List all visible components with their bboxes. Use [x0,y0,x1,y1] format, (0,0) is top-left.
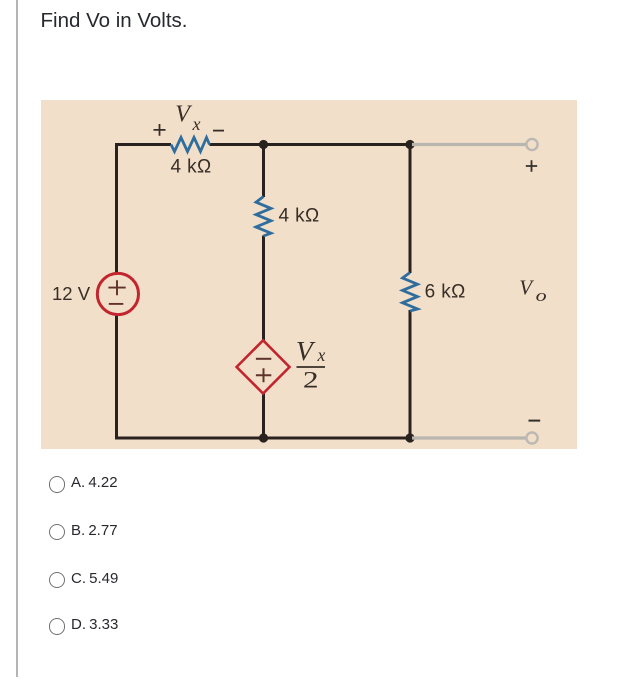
node: top right junction [405,140,414,149]
figure background panel [41,100,577,449]
svg-text:V: V [175,102,192,128]
svg-text:4 kΩ: 4 kΩ [279,205,320,226]
svg-text:12 V: 12 V [52,283,91,304]
label: minus polarity of Vo [529,420,541,422]
answer option B text [71,523,118,538]
wire: middle branch lower [262,393,265,440]
node: bottom right junction [405,433,414,442]
wire: middle branch center [262,236,265,342]
answer option D text [71,617,118,632]
answer option A radio [49,476,65,492]
node: bottom middle junction [259,433,268,442]
V1 plus sign [108,280,125,295]
wire: output lead bottom (gray) [412,436,526,439]
answer option B radio [49,524,65,540]
svg-text:x: x [317,345,326,365]
wire: right branch upper [409,143,412,273]
wire: left branch upper [115,143,118,274]
wire: bottom rail [115,437,412,440]
wire: middle branch upper [262,143,265,197]
left scrollbar [16,0,18,677]
wire: top left segment [115,143,171,146]
U1 plus sign [256,368,271,382]
question title [41,11,188,32]
answer option A text [71,475,118,490]
label: minus polarity of Vx [213,130,224,132]
svg-text:2: 2 [303,367,319,392]
wire: left branch lower [115,315,118,440]
svg-text:V: V [519,275,534,299]
label: plus polarity of Vx [154,124,166,136]
dependent source U1 diamond [237,340,290,393]
terminal: output top open circle [526,139,537,150]
resistor R3 6k ohm vertical zigzag (right branch) [403,273,418,312]
node: top middle junction [259,140,268,149]
resistor R1 4k ohm horizontal zigzag [171,138,210,152]
terminal: output bottom open circle [526,432,537,443]
answer option C radio [49,572,65,588]
wire: output lead top (gray) [412,143,526,146]
svg-text:6 kΩ: 6 kΩ [425,282,466,303]
svg-text:o: o [536,286,547,305]
wire: top middle/right segment [210,143,412,146]
voltage source V1 12V circle [97,273,138,314]
label: fraction bar of Vx/2 [297,366,326,368]
resistor R2 4k ohm vertical zigzag (middle branch) [256,197,271,237]
U1 minus sign [256,358,271,360]
label: plus polarity of Vo [526,160,537,171]
svg-text:x: x [192,114,201,134]
V1 minus sign [109,303,124,305]
answer option C text [71,571,118,586]
wire: right branch lower [409,310,412,440]
svg-text:4 kΩ: 4 kΩ [171,156,212,177]
answer option D radio [49,618,65,634]
